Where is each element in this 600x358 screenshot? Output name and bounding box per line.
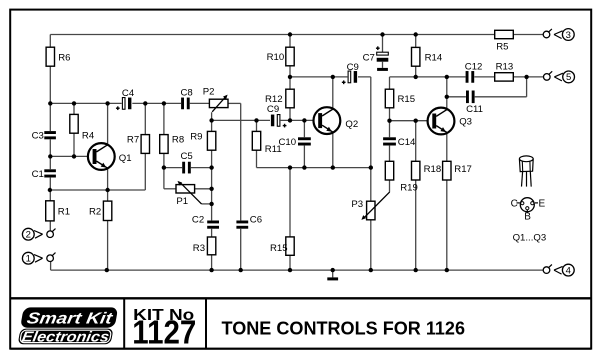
svg-text:R14: R14 <box>425 52 443 63</box>
svg-text:Q1: Q1 <box>119 153 132 164</box>
svg-text:R15: R15 <box>398 94 416 105</box>
svg-text:B: B <box>524 211 531 222</box>
svg-text:TONE CONTROLS FOR 1126: TONE CONTROLS FOR 1126 <box>222 318 466 338</box>
svg-text:C9: C9 <box>267 104 279 115</box>
svg-text:C4: C4 <box>122 88 135 99</box>
svg-text:1: 1 <box>26 254 31 265</box>
svg-text:1127: 1127 <box>132 315 196 352</box>
svg-text:C8: C8 <box>181 87 193 98</box>
svg-text:Smart Kit: Smart Kit <box>25 310 114 328</box>
svg-text:5: 5 <box>566 72 571 83</box>
svg-text:C: C <box>511 198 518 209</box>
svg-text:C14: C14 <box>398 137 416 148</box>
svg-text:3: 3 <box>566 30 571 41</box>
svg-text:Q2: Q2 <box>345 119 358 130</box>
svg-text:R17: R17 <box>454 164 472 175</box>
svg-text:R5: R5 <box>496 42 508 53</box>
svg-text:R3: R3 <box>193 243 205 254</box>
svg-text:Electronics: Electronics <box>21 329 111 345</box>
svg-text:C3: C3 <box>32 131 44 142</box>
svg-text:C5: C5 <box>181 151 193 162</box>
svg-text:R8: R8 <box>172 134 184 145</box>
svg-text:P1: P1 <box>176 196 188 207</box>
svg-text:R13: R13 <box>496 62 514 73</box>
svg-text:R10: R10 <box>267 52 285 63</box>
svg-text:R18: R18 <box>424 164 442 175</box>
svg-text:R7: R7 <box>127 134 139 145</box>
svg-text:R19: R19 <box>400 182 418 193</box>
svg-text:2: 2 <box>26 230 31 241</box>
svg-text:C12: C12 <box>465 61 483 72</box>
svg-text:4: 4 <box>566 265 571 276</box>
svg-text:C2: C2 <box>192 214 204 225</box>
svg-text:P3: P3 <box>351 199 363 210</box>
svg-text:C7: C7 <box>363 53 375 64</box>
svg-text:R1: R1 <box>58 207 70 218</box>
svg-text:P2: P2 <box>203 86 215 97</box>
svg-text:C1: C1 <box>32 169 44 180</box>
svg-text:Q3: Q3 <box>459 117 472 128</box>
svg-text:R6: R6 <box>58 52 70 63</box>
svg-text:C10: C10 <box>278 137 296 148</box>
svg-text:R15: R15 <box>270 243 288 254</box>
svg-text:R9: R9 <box>190 131 202 142</box>
svg-text:R4: R4 <box>82 130 95 141</box>
svg-text:C11: C11 <box>466 104 483 115</box>
svg-text:Q1...Q3: Q1...Q3 <box>513 233 547 244</box>
svg-text:C6: C6 <box>250 214 262 225</box>
svg-text:R2: R2 <box>89 207 101 218</box>
svg-text:C9: C9 <box>347 62 359 73</box>
svg-text:E: E <box>539 198 546 209</box>
